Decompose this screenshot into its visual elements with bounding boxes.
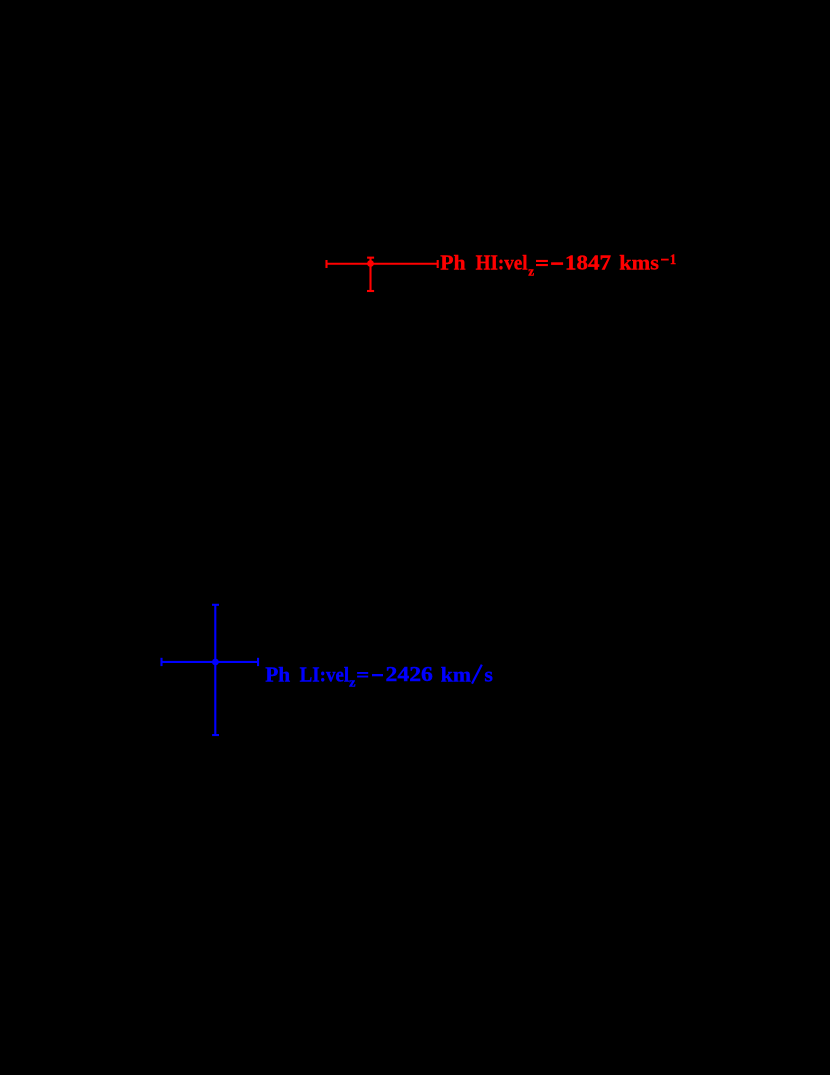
- svg-text:1847: 1847: [565, 250, 611, 274]
- svg-text:2426: 2426: [386, 662, 434, 686]
- blue marker point: [212, 659, 219, 666]
- blue right cap: [257, 658, 259, 666]
- red upper cap: [367, 257, 374, 259]
- blue label "/": [472, 665, 482, 684]
- svg-text:LI:vel: LI:vel: [300, 662, 350, 686]
- red label superscript minus: [661, 259, 669, 261]
- red vertical error bar: [369, 258, 371, 291]
- blue data point: horizontal error bar: [162, 661, 259, 663]
- red left cap: [325, 260, 327, 268]
- svg-text:1: 1: [670, 252, 676, 268]
- svg-text:Ph: Ph: [440, 250, 465, 274]
- red lower cap: [367, 290, 374, 292]
- blue label equals sign: [357, 672, 368, 674]
- svg-text:Ph: Ph: [265, 662, 290, 686]
- blue vertical error bar: [214, 605, 216, 735]
- svg-text:km: km: [441, 662, 471, 686]
- svg-text:kms: kms: [619, 250, 659, 274]
- red data point: horizontal error bar: [327, 263, 438, 265]
- svg-text:s: s: [484, 662, 493, 686]
- red marker point: [367, 260, 374, 267]
- svg-text:HI:vel: HI:vel: [476, 250, 528, 274]
- blue left cap: [160, 658, 162, 666]
- red label equals sign: [536, 260, 548, 262]
- blue bottom cap: [212, 734, 219, 736]
- red right cap: [437, 260, 439, 268]
- red label minus sign: [551, 262, 563, 265]
- svg-text:z: z: [528, 263, 534, 278]
- blue top cap: [212, 604, 219, 606]
- blue label minus sign: [372, 674, 383, 676]
- svg-text:z: z: [349, 674, 356, 689]
